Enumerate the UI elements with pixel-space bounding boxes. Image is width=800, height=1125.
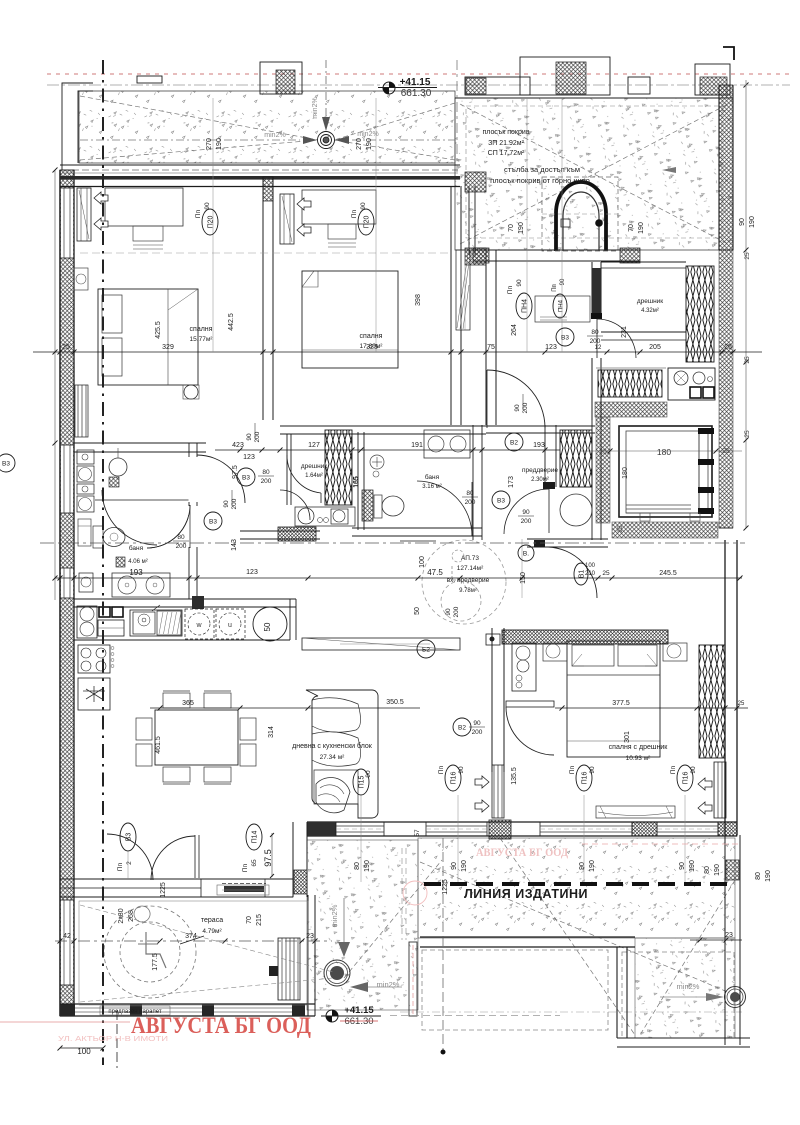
- svg-text:80: 80: [177, 534, 185, 541]
- svg-text:661.30: 661.30: [401, 88, 432, 99]
- svg-text:329: 329: [162, 344, 174, 351]
- svg-text:268: 268: [128, 910, 135, 922]
- svg-text:ЗП 21.92м²: ЗП 21.92м²: [488, 140, 525, 147]
- svg-text:90: 90: [560, 278, 566, 285]
- svg-text:100: 100: [77, 1047, 91, 1056]
- svg-text:25: 25: [744, 252, 751, 260]
- svg-text:97.5: 97.5: [232, 465, 239, 479]
- svg-text:398: 398: [415, 294, 422, 306]
- svg-text:90: 90: [246, 433, 253, 441]
- svg-text:70: 70: [508, 224, 515, 232]
- svg-text:42: 42: [63, 933, 71, 940]
- svg-text:90: 90: [516, 279, 523, 287]
- svg-text:90: 90: [514, 404, 521, 412]
- svg-text:200: 200: [261, 478, 272, 485]
- svg-text:баня: баня: [129, 544, 144, 552]
- svg-text:90: 90: [223, 500, 230, 508]
- svg-text:Пп: Пп: [242, 863, 249, 872]
- svg-text:50: 50: [414, 607, 421, 615]
- svg-text:90: 90: [365, 770, 372, 778]
- svg-text:В3: В3: [126, 833, 133, 842]
- svg-text:min2%: min2%: [377, 980, 400, 989]
- svg-text:П16: П16: [582, 771, 589, 784]
- svg-text:ПН4: ПН4: [559, 299, 565, 312]
- svg-text:231: 231: [621, 326, 628, 338]
- svg-text:25: 25: [738, 701, 745, 707]
- svg-text:80: 80: [262, 469, 270, 476]
- svg-text:180: 180: [622, 467, 629, 479]
- svg-text:190: 190: [589, 860, 596, 872]
- svg-text:191: 191: [411, 442, 423, 449]
- svg-text:90: 90: [589, 766, 596, 774]
- svg-text:190: 190: [714, 864, 721, 876]
- svg-text:12: 12: [595, 345, 602, 351]
- svg-text:+41.15: +41.15: [400, 77, 431, 88]
- svg-text:баня: баня: [425, 473, 440, 481]
- svg-text:90: 90: [360, 202, 367, 210]
- svg-text:190: 190: [366, 138, 373, 150]
- svg-text:плосък покрив: плосък покрив: [483, 129, 530, 136]
- svg-text:57: 57: [414, 829, 421, 837]
- svg-text:стълба за достъп към: стълба за достъп към: [504, 165, 580, 174]
- svg-text:80: 80: [354, 862, 361, 870]
- svg-text:+41.15: +41.15: [344, 1005, 374, 1016]
- svg-text:75: 75: [487, 344, 495, 351]
- svg-text:80: 80: [466, 490, 474, 497]
- svg-text:200: 200: [472, 729, 483, 736]
- svg-text:90: 90: [522, 509, 530, 516]
- svg-text:Пп: Пп: [438, 765, 445, 774]
- svg-text:123: 123: [243, 454, 255, 461]
- svg-text:дневна с кухненски блок: дневна с кухненски блок: [292, 742, 373, 750]
- svg-text:190: 190: [765, 870, 772, 882]
- svg-text:4.06 м²: 4.06 м²: [128, 559, 147, 565]
- svg-text:плосък покрив от горно ниво: плосък покрив от горно ниво: [490, 176, 590, 185]
- svg-text:2.30м²: 2.30м²: [531, 477, 549, 483]
- svg-text:193: 193: [129, 568, 143, 577]
- svg-text:150: 150: [520, 572, 527, 584]
- svg-text:АВГУСТА БГ ООД: АВГУСТА БГ ООД: [476, 847, 568, 859]
- svg-text:90: 90: [473, 720, 481, 727]
- svg-text:СП 17.72м²: СП 17.72м²: [488, 150, 525, 157]
- svg-text:270: 270: [356, 138, 363, 150]
- svg-text:80: 80: [755, 872, 762, 880]
- svg-text:П20: П20: [364, 215, 371, 228]
- svg-text:190: 190: [216, 138, 223, 150]
- svg-text:15.77м²: 15.77м²: [190, 336, 214, 343]
- svg-text:вх. предверие: вх. предверие: [447, 577, 490, 584]
- svg-text:В1: В1: [579, 570, 586, 579]
- svg-text:u: u: [228, 622, 232, 629]
- svg-text:2: 2: [126, 861, 133, 865]
- svg-text:461.5: 461.5: [155, 736, 162, 754]
- svg-text:190: 190: [364, 860, 371, 872]
- svg-text:80: 80: [704, 866, 711, 874]
- svg-text:50: 50: [263, 622, 272, 631]
- svg-text:В3: В3: [561, 335, 569, 342]
- svg-text:25: 25: [599, 449, 607, 456]
- svg-text:спалня с дрешник: спалня с дрешник: [609, 744, 669, 751]
- svg-text:90: 90: [451, 862, 458, 870]
- svg-text:661.30: 661.30: [344, 1016, 373, 1027]
- svg-text:ЛИНИЯ ИЗДАТИНИ: ЛИНИЯ ИЗДАТИНИ: [464, 887, 588, 901]
- svg-text:1225: 1225: [160, 882, 167, 898]
- svg-text:25: 25: [744, 356, 751, 364]
- svg-text:425.5: 425.5: [155, 321, 162, 339]
- svg-text:127.14м²: 127.14м²: [457, 565, 484, 572]
- svg-text:В3: В3: [242, 475, 250, 482]
- svg-text:Б2: Б2: [422, 647, 430, 654]
- svg-text:314: 314: [268, 726, 275, 738]
- svg-text:П16: П16: [683, 771, 690, 784]
- svg-text:245.5: 245.5: [659, 570, 677, 577]
- svg-text:100: 100: [419, 556, 426, 568]
- svg-text:200: 200: [590, 338, 601, 345]
- svg-text:215: 215: [256, 914, 263, 926]
- svg-text:w: w: [195, 622, 202, 629]
- svg-text:25: 25: [724, 344, 732, 351]
- svg-text:90: 90: [204, 202, 211, 210]
- svg-text:25: 25: [722, 448, 730, 455]
- svg-text:23: 23: [725, 932, 733, 939]
- svg-text:25: 25: [744, 430, 751, 438]
- svg-text:377.5: 377.5: [612, 700, 630, 707]
- svg-text:17.80м²: 17.80м²: [360, 343, 384, 350]
- svg-text:23: 23: [306, 933, 314, 940]
- svg-text:дрешник: дрешник: [637, 298, 663, 305]
- svg-text:200: 200: [176, 543, 187, 550]
- svg-text:min2%: min2%: [330, 904, 339, 927]
- svg-text:423: 423: [232, 442, 244, 449]
- svg-text:47.5: 47.5: [427, 568, 443, 577]
- svg-text:173: 173: [508, 476, 515, 488]
- svg-text:Пп: Пп: [569, 765, 576, 774]
- svg-text:Пп: Пп: [351, 209, 358, 218]
- svg-text:90: 90: [690, 766, 697, 774]
- svg-text:350.5: 350.5: [386, 699, 404, 706]
- svg-text:Пп: Пп: [507, 285, 514, 294]
- svg-text:270: 270: [206, 138, 213, 150]
- svg-text:спалня: спалня: [190, 326, 213, 333]
- svg-text:В.: В.: [523, 551, 529, 558]
- svg-text:В3: В3: [2, 461, 10, 468]
- svg-text:В2: В2: [458, 725, 466, 732]
- svg-text:АП.73: АП.73: [461, 555, 479, 562]
- svg-text:min2%: min2%: [677, 982, 700, 991]
- svg-text:135.5: 135.5: [511, 767, 518, 785]
- svg-text:25: 25: [62, 344, 70, 351]
- svg-text:тераса: тераса: [201, 917, 223, 924]
- svg-text:97.5: 97.5: [263, 849, 273, 867]
- svg-text:преддверие: преддверие: [522, 467, 558, 474]
- svg-text:min2%: min2%: [357, 131, 378, 138]
- svg-text:365: 365: [182, 700, 194, 707]
- svg-text:спалня: спалня: [360, 333, 383, 340]
- svg-text:27.34 м²: 27.34 м²: [320, 754, 346, 761]
- svg-text:ПН4: ПН4: [522, 299, 529, 313]
- svg-text:1.64м²: 1.64м²: [305, 473, 323, 479]
- svg-text:Пп: Пп: [670, 765, 677, 774]
- svg-text:25: 25: [602, 570, 610, 577]
- svg-text:min2%: min2%: [312, 97, 319, 118]
- svg-text:25: 25: [617, 525, 624, 533]
- svg-text:180: 180: [657, 447, 671, 457]
- svg-text:П20: П20: [208, 215, 215, 228]
- svg-text:Пп: Пп: [195, 209, 202, 218]
- svg-text:193: 193: [533, 442, 545, 449]
- svg-text:190: 190: [518, 222, 525, 234]
- svg-text:10.93 м²: 10.93 м²: [626, 755, 652, 762]
- svg-text:200: 200: [465, 499, 476, 506]
- svg-text:65: 65: [251, 859, 258, 867]
- svg-text:70: 70: [246, 916, 253, 924]
- svg-text:442.5: 442.5: [228, 313, 235, 331]
- svg-text:301: 301: [624, 731, 631, 743]
- svg-text:П16: П16: [451, 771, 458, 784]
- svg-text:В3: В3: [209, 519, 217, 526]
- svg-text:90: 90: [739, 218, 746, 226]
- svg-text:90: 90: [579, 862, 586, 870]
- svg-text:90: 90: [458, 766, 465, 774]
- svg-text:127: 127: [308, 442, 320, 449]
- svg-text:min2%: min2%: [264, 132, 285, 139]
- svg-text:В2: В2: [510, 440, 518, 447]
- svg-text:4.79м²: 4.79м²: [202, 928, 222, 935]
- svg-text:УЛ. АКТЬОР Н-В ИМОТИ: УЛ. АКТЬОР Н-В ИМОТИ: [58, 1036, 168, 1043]
- svg-text:В3: В3: [497, 498, 505, 505]
- svg-text:1225: 1225: [442, 879, 449, 895]
- svg-text:264: 264: [511, 324, 518, 336]
- svg-text:190: 190: [638, 222, 645, 234]
- svg-text:90: 90: [445, 608, 452, 616]
- svg-text:70: 70: [628, 224, 635, 232]
- svg-text:Пп: Пп: [552, 284, 558, 292]
- svg-text:80: 80: [591, 329, 599, 336]
- svg-text:177.5: 177.5: [152, 953, 159, 971]
- svg-text:3.16 м²: 3.16 м²: [422, 484, 441, 490]
- svg-text:143: 143: [231, 539, 238, 551]
- svg-text:П14: П14: [252, 830, 259, 843]
- svg-text:190: 190: [461, 860, 468, 872]
- svg-text:190: 190: [749, 216, 756, 228]
- svg-text:дрешник: дрешник: [301, 463, 327, 470]
- svg-text:123: 123: [246, 569, 258, 576]
- svg-text:190: 190: [689, 860, 696, 872]
- svg-text:165: 165: [353, 476, 360, 488]
- svg-text:123: 123: [545, 344, 557, 351]
- svg-text:210: 210: [585, 571, 596, 577]
- svg-text:200: 200: [521, 518, 532, 525]
- svg-text:9.78м²: 9.78м²: [459, 588, 477, 594]
- svg-text:4.32м²: 4.32м²: [641, 308, 659, 314]
- svg-text:Пп: Пп: [117, 862, 124, 871]
- svg-text:200: 200: [453, 606, 460, 617]
- svg-text:205: 205: [649, 344, 661, 351]
